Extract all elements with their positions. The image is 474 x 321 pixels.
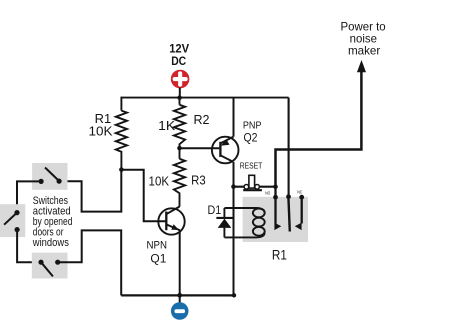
- resistor R1: [116, 97, 127, 170]
- wire node A to Q1 base: [121, 170, 166, 222]
- svg-text:R3: R3: [191, 173, 206, 188]
- battery positive terminal (+): [171, 70, 190, 89]
- svg-text:R1: R1: [272, 248, 287, 263]
- node ground junction: [177, 293, 182, 298]
- node pole terminal: [286, 194, 291, 199]
- switch S3 (bottom): [38, 260, 60, 277]
- arrowhead noise maker: [357, 60, 366, 72]
- NO contact arrow: [274, 223, 281, 231]
- node supply junction: [177, 95, 182, 100]
- wire S2 to S3: [17, 230, 41, 263]
- svg-text:Q2: Q2: [244, 131, 258, 145]
- node Q2 collector / RESET junction: [231, 184, 236, 189]
- diode D1: [216, 208, 232, 237]
- node B (R2/R3/Q2 base junction): [177, 146, 182, 151]
- node NC terminal: [299, 195, 304, 200]
- wire D1 bottom / coil bottom: [224, 233, 264, 238]
- ground rail wire: [121, 294, 235, 296]
- switch S2 box: [0, 204, 25, 237]
- wire Q2 emitter to rail: [233, 98, 235, 137]
- wire node A to switch loop top: [59, 170, 121, 212]
- wire S1 to S2: [17, 181, 41, 212]
- node NO upper junction: [273, 184, 278, 189]
- pushbutton RESET: [243, 175, 262, 190]
- battery negative terminal (-): [171, 302, 189, 320]
- svg-text:NC: NC: [297, 189, 302, 194]
- resistor R2: [174, 98, 185, 148]
- relay pole lever: [288, 197, 289, 232]
- wire S3 to ground rail: [58, 230, 121, 295]
- svg-text:RESET: RESET: [240, 162, 263, 171]
- wire to battery negative: [179, 295, 181, 303]
- transistor Q1 (NPN): [158, 207, 184, 235]
- wire NO contact: [274, 187, 276, 224]
- label 12V DC: [169, 41, 189, 67]
- switch S2 (left): [4, 210, 20, 232]
- svg-text:10K: 10K: [89, 123, 113, 138]
- switch S1 box: [32, 163, 67, 190]
- wire RESET: [234, 186, 276, 188]
- wire node B to Q2 base: [180, 147, 221, 149]
- svg-text:windows: windows: [32, 237, 69, 249]
- label switches text: [32, 195, 73, 249]
- svg-text:maker: maker: [348, 44, 380, 58]
- +12V rail wire: [121, 97, 289, 99]
- node A (R1 bottom junction): [119, 167, 124, 172]
- relay R1 box: [243, 197, 308, 242]
- svg-text:NPN: NPN: [147, 239, 168, 251]
- svg-text:10K: 10K: [149, 173, 170, 188]
- svg-text:R2: R2: [194, 112, 210, 127]
- transistor Q2 (PNP): [212, 137, 239, 164]
- node NO terminal: [273, 195, 278, 200]
- NC contact arrow: [295, 223, 302, 231]
- svg-text:DC: DC: [171, 54, 186, 68]
- wire Q2 collector down to ground rail: [233, 162, 235, 295]
- svg-text:D1: D1: [208, 205, 222, 217]
- wire +12V to relay pole: [288, 98, 290, 197]
- wire + to rail: [179, 88, 181, 98]
- wire to noise maker: [276, 72, 362, 187]
- svg-text:NO: NO: [265, 190, 271, 195]
- wire Q1 emitter to ground: [179, 230, 181, 296]
- node ground right junction: [232, 293, 236, 297]
- label Power to noise maker: [341, 20, 386, 58]
- relay coil: [253, 209, 265, 236]
- switch S3 box: [32, 253, 68, 279]
- svg-text:1K: 1K: [158, 118, 175, 133]
- resistor R3: [174, 148, 185, 207]
- wire NC contact: [301, 197, 303, 223]
- wire D1 top / coil top: [224, 208, 264, 213]
- svg-text:Q1: Q1: [150, 251, 166, 265]
- switch S1 (top): [39, 168, 62, 184]
